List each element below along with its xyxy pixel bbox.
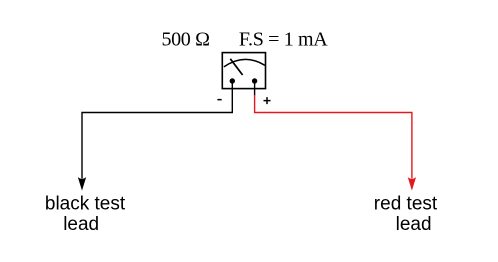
svg-text:F.S = 1 mA: F.S = 1 mA	[239, 29, 328, 51]
meter terminal dot (positive)	[252, 78, 257, 83]
arrowhead red lead	[408, 177, 416, 191]
meter M1 body	[222, 53, 265, 89]
svg-text:black test: black test	[45, 193, 126, 214]
meter M1 scale arc	[224, 59, 265, 67]
svg-text:500 Ω: 500 Ω	[162, 29, 210, 51]
svg-text:lead: lead	[63, 214, 99, 235]
arrowhead black lead	[78, 177, 86, 191]
wire positive terminal stub (black)	[254, 83, 256, 96]
svg-text:red test: red test	[374, 193, 438, 214]
polarity label +	[264, 97, 271, 104]
meter M1 needle	[230, 59, 242, 75]
svg-text:lead: lead	[396, 214, 432, 235]
meter terminal dot (negative)	[230, 78, 235, 83]
wire red test lead	[255, 95, 412, 179]
wire black test lead	[82, 83, 232, 179]
polarity label -	[217, 99, 221, 101]
